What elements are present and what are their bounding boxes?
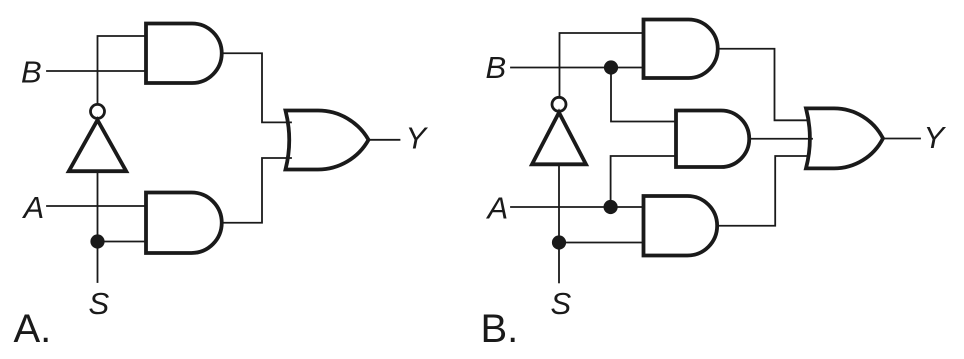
svg-text:B.: B. (481, 307, 519, 351)
wire OR B output to Y (883, 138, 921, 140)
svg-text:A.: A. (14, 307, 52, 351)
svg-text:A: A (486, 191, 509, 226)
wire inverter output up and right to AND gate A1 upper input (98, 36, 147, 103)
wire B input to AND gate B1 lower input (511, 67, 644, 69)
OR gate A (286, 110, 369, 169)
inverter bubble (NOT S output) (91, 104, 105, 118)
AND gate A1 (top) (146, 24, 222, 84)
wire AND A2 output to OR A lower input (222, 158, 291, 223)
wire OR A output to Y (369, 139, 400, 141)
wire S vertical through inverter input (97, 171, 99, 282)
wire inverter output up and right to AND gate B1 upper input (560, 33, 644, 96)
AND gate A2 (bottom) (146, 193, 222, 254)
wire A input to AND gate B3 upper input (511, 206, 644, 208)
AND gate B1 (top) (644, 20, 718, 79)
wire AND B1 output to OR B upper input (718, 49, 808, 121)
junction dot S to AND B3 (552, 235, 566, 249)
inverter bubble (NOT S output) (552, 97, 566, 111)
junction dot B to AND B2 (604, 60, 618, 74)
svg-text:B: B (21, 55, 42, 90)
inverter triangle (532, 113, 586, 165)
svg-text:S: S (551, 286, 572, 321)
wire AND A1 output to OR A upper input (222, 53, 291, 122)
junction dot S to AND A2 (90, 234, 104, 248)
junction dot A to AND B2 (604, 200, 618, 214)
wire A input to AND gate A2 upper input (47, 205, 146, 207)
wire AND B3 output to OR B lower input (717, 156, 808, 226)
wire B junction down to AND gate B2 upper input (611, 68, 676, 122)
wire AND B2 output to OR B middle input (749, 138, 812, 140)
svg-text:B: B (486, 50, 507, 85)
wire S junction to AND gate A2 lower input (98, 241, 147, 243)
svg-text:Y: Y (406, 121, 429, 156)
inverter triangle (69, 120, 126, 171)
OR gate B (806, 108, 883, 168)
wire S junction to AND gate B3 lower input (559, 242, 644, 244)
AND gate B3 (bottom) (644, 196, 718, 256)
AND gate B2 (middle) (676, 111, 749, 168)
wire B input to AND gate A1 lower input (47, 70, 146, 72)
wire A junction up to AND gate B2 lower input (611, 156, 676, 207)
svg-text:S: S (89, 286, 110, 321)
svg-text:Y: Y (924, 120, 947, 155)
wire S vertical through inverter input (558, 164, 560, 282)
svg-text:A: A (22, 190, 45, 225)
